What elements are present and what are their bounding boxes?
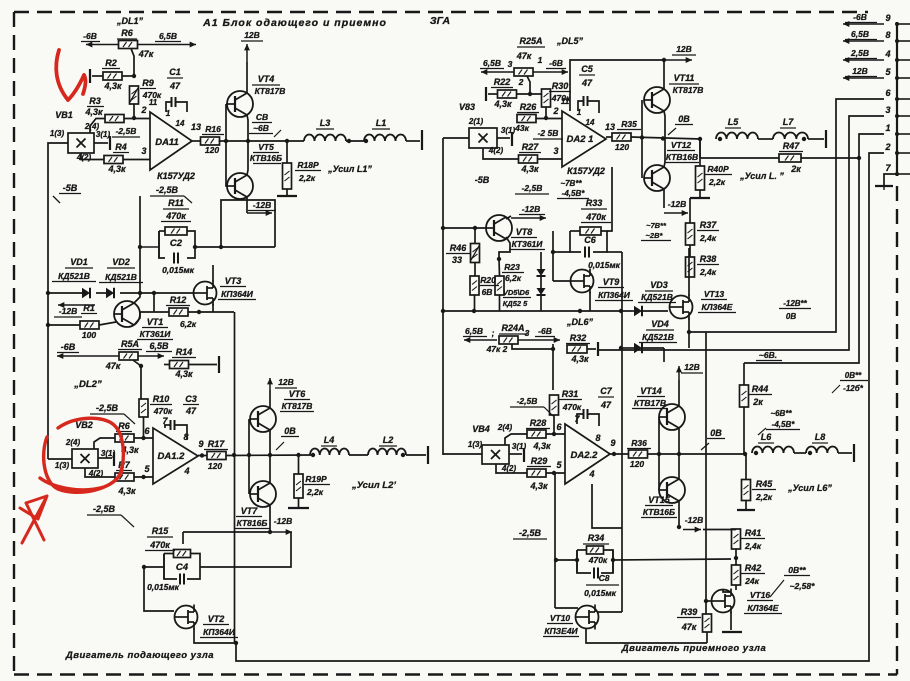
wire R3 to op-amp pin2 xyxy=(124,118,150,120)
resistor R9 (trimmer) xyxy=(130,86,139,104)
op-amp DA1.2 xyxy=(153,428,198,484)
red circle annotation around VB2 xyxy=(40,418,123,492)
wire R26 to op-amp pin2 xyxy=(536,118,562,120)
svg-text:4,3к: 4,3к xyxy=(174,369,193,379)
svg-text:R36: R36 xyxy=(631,438,647,448)
wire C4 left node xyxy=(144,566,164,568)
svg-text:4,3к: 4,3к xyxy=(493,99,512,109)
wire pin 2 drop xyxy=(869,153,884,368)
svg-text:0В: 0В xyxy=(678,114,690,124)
RC bracket C4/R15 xyxy=(164,554,177,580)
wire R5A right 6,5В xyxy=(138,355,164,357)
resistor R44 xyxy=(740,385,749,407)
resistor R16 xyxy=(201,137,220,145)
resistor R17 xyxy=(207,452,226,460)
wire bottom bus xyxy=(236,368,869,661)
svg-text:L8: L8 xyxy=(815,432,826,442)
connector pin 7 xyxy=(897,173,910,175)
svg-text:КТ817В: КТ817В xyxy=(282,401,313,411)
svg-text:4,3к: 4,3к xyxy=(532,441,551,451)
svg-text:КТВ16В: КТВ16В xyxy=(666,152,698,162)
svg-text:4: 4 xyxy=(588,469,594,479)
svg-text:2к: 2к xyxy=(752,397,763,407)
svg-text:100: 100 xyxy=(82,330,96,340)
svg-text:КПЗЕ4И: КПЗЕ4И xyxy=(544,626,578,636)
resistor R23 xyxy=(495,276,504,295)
wire VT7 base xyxy=(248,455,250,494)
wire R44 top xyxy=(743,363,745,385)
svg-text:R15: R15 xyxy=(152,526,170,536)
svg-text:С2: С2 xyxy=(170,238,183,249)
wire VT7 emitter xyxy=(269,455,271,483)
wire VT7 collector -12В xyxy=(269,505,271,532)
svg-text:R32: R32 xyxy=(570,333,587,343)
svg-text:6,5В: 6,5В xyxy=(851,29,869,39)
svg-text:VT3: VT3 xyxy=(225,276,242,286)
svg-text:-12В: -12В xyxy=(274,516,292,526)
wire VT5 collector to -12В xyxy=(246,197,248,213)
svg-text:R4: R4 xyxy=(115,142,127,152)
wire R2 left terminal xyxy=(92,75,103,77)
svg-text:VT12: VT12 xyxy=(671,140,692,150)
svg-text:0,015мк: 0,015мк xyxy=(584,588,617,598)
svg-text:4(2): 4(2) xyxy=(501,464,517,473)
svg-text:33: 33 xyxy=(452,255,462,265)
svg-text:VT2: VT2 xyxy=(208,614,225,624)
svg-text:~2,58*: ~2,58* xyxy=(790,581,816,591)
svg-text:2,4к: 2,4к xyxy=(744,541,762,551)
connector pin 9 xyxy=(897,23,910,25)
svg-text:СВ: СВ xyxy=(256,112,268,122)
svg-text:470к: 470к xyxy=(588,555,608,565)
connector bus bar xyxy=(896,22,898,176)
wire VT15 emitter xyxy=(678,454,680,479)
svg-text:VT15: VT15 xyxy=(648,495,671,505)
wire 6,5В R24А row xyxy=(464,339,497,341)
wire R4 to op-amp pin3 xyxy=(123,159,150,161)
svg-text:-5В: -5В xyxy=(475,175,490,185)
wire R44 bottom to node xyxy=(743,407,745,454)
wire R24A right -6В xyxy=(518,339,560,341)
svg-text:С5: С5 xyxy=(581,64,593,74)
wire op-amp out to R35 xyxy=(606,136,612,138)
wire diode row xyxy=(48,292,82,294)
svg-text:-12В: -12В xyxy=(685,515,703,525)
svg-text:12В: 12В xyxy=(278,377,294,387)
op-amp DA1.1 xyxy=(150,112,192,170)
svg-text:R34: R34 xyxy=(588,533,605,543)
svg-text:-2,5В: -2,5В xyxy=(519,528,542,538)
svg-text:1(3): 1(3) xyxy=(55,461,70,470)
resistor R46 (trimmer) xyxy=(471,244,480,263)
wire VT4 base column xyxy=(225,104,227,141)
svg-text:12В: 12В xyxy=(676,44,692,54)
wire VB3 pin left xyxy=(443,137,469,139)
wire VT5 base xyxy=(226,141,227,186)
resistor R30 xyxy=(542,89,551,107)
svg-text:24к: 24к xyxy=(744,576,759,586)
inductor L7 xyxy=(773,132,808,139)
svg-text:-2,5В: -2,5В xyxy=(96,403,119,413)
svg-text:-2,5В: -2,5В xyxy=(93,504,116,514)
svg-text:VT11: VT11 xyxy=(674,73,695,83)
resistor R42 xyxy=(732,565,741,585)
svg-text:КД521В: КД521В xyxy=(105,272,137,282)
inductor L1 xyxy=(364,135,406,142)
wire VB3 pin3 right xyxy=(497,137,510,139)
svg-text:6В: 6В xyxy=(482,287,493,297)
svg-text:-12В: -12В xyxy=(59,306,77,316)
wire VB1 pin4 to R4 xyxy=(81,153,104,160)
terminal bar L7 xyxy=(825,130,827,148)
wire VD3 row xyxy=(632,310,634,312)
svg-text:R25А: R25А xyxy=(519,36,542,46)
svg-text:6,2к: 6,2к xyxy=(180,319,197,329)
wire C6 right wrap xyxy=(607,251,622,253)
svg-text:VT13: VT13 xyxy=(704,289,725,299)
svg-text:2,2к: 2,2к xyxy=(708,177,726,187)
svg-text:47: 47 xyxy=(185,406,197,416)
svg-text:470к: 470к xyxy=(562,402,582,412)
wire R12 right to rail xyxy=(188,311,234,313)
svg-text:14: 14 xyxy=(176,119,185,128)
wire VT6 collector 12В xyxy=(269,390,271,408)
wire left circuit boundary rail xyxy=(234,312,236,643)
svg-text:0В: 0В xyxy=(284,426,296,436)
svg-text:R14: R14 xyxy=(176,347,193,357)
wire R30 to pin2 node xyxy=(545,107,547,118)
svg-text:С3: С3 xyxy=(185,394,197,404)
connector pin 7 ground xyxy=(884,174,897,186)
svg-text:4,3к: 4,3к xyxy=(117,486,136,496)
wire VT8 base row xyxy=(443,227,486,229)
svg-text:120: 120 xyxy=(208,461,222,471)
diode VD5 xyxy=(537,269,546,276)
inductor L8 xyxy=(806,447,838,454)
svg-text:L1: L1 xyxy=(376,118,387,128)
wire VT3 source down xyxy=(212,304,214,312)
svg-text:~7В**: ~7В** xyxy=(646,221,667,230)
svg-text:~6В: ~6В xyxy=(253,123,269,133)
resistor R12 xyxy=(169,308,188,316)
svg-text:~6В.: ~6В. xyxy=(759,350,777,360)
wire -6В row xyxy=(57,355,119,357)
svg-text:R42: R42 xyxy=(745,563,762,573)
svg-text:КТ361И: КТ361И xyxy=(512,239,544,249)
svg-text:VT9: VT9 xyxy=(603,277,620,287)
wire R5A wiper down xyxy=(133,360,141,399)
svg-text:R11: R11 xyxy=(168,198,184,208)
svg-text:47к: 47к xyxy=(105,361,121,371)
inductor L2 xyxy=(368,449,406,456)
svg-text:L7: L7 xyxy=(783,117,794,127)
svg-text:0В**: 0В** xyxy=(788,565,806,575)
svg-text:120: 120 xyxy=(615,142,629,152)
svg-text:„Усил L1”: „Усил L1” xyxy=(327,164,372,174)
ground R18Р xyxy=(286,189,288,196)
connector pin 6 xyxy=(897,98,910,100)
wire VB4 pin1 left xyxy=(443,453,482,455)
wire R14 to terminal xyxy=(189,364,217,366)
wire VT16 top xyxy=(722,588,724,590)
svg-text:R10: R10 xyxy=(153,394,170,404)
svg-text:R40Р: R40Р xyxy=(707,164,729,174)
wire VT12 collector -12В xyxy=(663,189,665,208)
svg-text:47к: 47к xyxy=(138,49,154,59)
svg-text:13: 13 xyxy=(191,122,201,132)
wire C4 node to VT2 gate xyxy=(144,567,174,611)
svg-text:2: 2 xyxy=(518,77,524,87)
svg-text:„Усил L6”: „Усил L6” xyxy=(787,483,832,493)
svg-text:4: 4 xyxy=(183,466,189,476)
wire VT9 source down xyxy=(589,292,591,311)
svg-text:0,015мк: 0,015мк xyxy=(162,265,195,275)
svg-text:„DL5”: „DL5” xyxy=(556,36,584,46)
resistor R25А xyxy=(514,68,533,76)
wire VT10 drain xyxy=(598,611,622,613)
svg-text:3(1): 3(1) xyxy=(96,130,111,139)
wire VT13 top xyxy=(688,248,690,296)
wire R47 down from node xyxy=(699,139,701,158)
terminal bar L1 xyxy=(421,130,423,150)
wire VT1 emitter up xyxy=(134,293,140,303)
svg-text:11: 11 xyxy=(561,97,570,106)
svg-text:R12: R12 xyxy=(170,295,187,305)
wire R37-R40P xyxy=(689,198,691,223)
wire R9 to pin2 node xyxy=(133,104,135,118)
wire feedback rail right lower xyxy=(621,311,623,612)
wire VB3 pin4 to R27 xyxy=(483,148,519,159)
svg-text:47: 47 xyxy=(600,400,612,410)
wire R46 to R20 xyxy=(474,263,476,277)
wire R1 to VT1 base xyxy=(48,324,80,326)
resistor R7 (DA1.2) xyxy=(115,473,134,481)
wire -12В feedback row xyxy=(183,531,270,533)
wire R24A pin2 down xyxy=(512,344,553,349)
svg-text:Двигатель приемного узла: Двигатель приемного узла xyxy=(621,643,767,654)
wire VB2 pin1 left xyxy=(48,458,72,460)
resistor R18Р xyxy=(283,163,292,189)
svg-text:R35: R35 xyxy=(621,119,637,129)
inductor L5 xyxy=(716,133,758,139)
capacitor C8 xyxy=(593,568,595,579)
svg-text:~6В**: ~6В** xyxy=(770,409,792,418)
wire VT6 base column xyxy=(248,419,250,455)
wire pin 3 drop xyxy=(598,116,884,350)
svg-text:VD2: VD2 xyxy=(112,257,130,267)
wire VT15 base xyxy=(658,454,660,490)
wire L4 to L2 xyxy=(349,454,368,456)
red arrow annotation xyxy=(20,496,47,543)
wire R28 to pin6 xyxy=(546,433,565,435)
svg-text:КТВ16Б: КТВ16Б xyxy=(643,507,675,517)
wire R6 left -6В xyxy=(86,44,119,46)
resistor R1 xyxy=(80,321,99,329)
wire VT11 emitter xyxy=(664,111,665,139)
transistor VT6 КТ817В xyxy=(250,406,276,432)
svg-text:ЗГА: ЗГА xyxy=(430,15,450,27)
svg-text:R29: R29 xyxy=(531,456,548,466)
wire L2 to terminal xyxy=(406,454,426,456)
svg-text:КТ817В: КТ817В xyxy=(255,86,286,96)
svg-text:-2,5В: -2,5В xyxy=(517,396,538,406)
RC bracket C6/R33 xyxy=(570,231,581,252)
inductor L3 xyxy=(304,135,346,142)
wire C6 left node xyxy=(553,251,570,253)
resistor R2 xyxy=(103,72,122,80)
connector pin 1 xyxy=(897,133,910,135)
svg-text:R47: R47 xyxy=(783,141,801,151)
transistor VT11 КТ817В xyxy=(644,87,670,113)
transistor VT15 КТВ16В xyxy=(659,477,685,503)
transistor VT2 КП364И xyxy=(175,606,198,629)
svg-text:3: 3 xyxy=(508,59,513,69)
svg-text:L2: L2 xyxy=(383,435,394,445)
svg-text:КД521В: КД521В xyxy=(642,332,674,342)
svg-text:К157УД2: К157УД2 xyxy=(157,171,195,181)
resistor R40Р xyxy=(696,166,705,190)
svg-text:470к: 470к xyxy=(585,212,606,222)
ground R19Р xyxy=(298,498,300,508)
wire rail x556 to VT10 xyxy=(554,473,556,608)
svg-text:4(2): 4(2) xyxy=(76,153,92,162)
svg-text:14: 14 xyxy=(586,118,595,127)
svg-text:R22: R22 xyxy=(494,77,511,87)
svg-text:2: 2 xyxy=(884,142,890,152)
svg-text:3: 3 xyxy=(885,105,890,115)
svg-text:9: 9 xyxy=(885,13,890,23)
svg-text:-4,5В*: -4,5В* xyxy=(772,420,796,429)
svg-text:4,3к: 4,3к xyxy=(520,164,539,174)
svg-text:4,3к: 4,3к xyxy=(529,481,548,491)
svg-text:-2,5В: -2,5В xyxy=(156,185,179,195)
wire row to rail x849 xyxy=(552,344,554,349)
resistor R29 xyxy=(527,469,546,477)
resistor R47 xyxy=(779,154,801,162)
wire node to R19Р xyxy=(298,455,300,474)
transistor VT8 КТ361И xyxy=(486,215,512,241)
wire R6 wiper to R2 node xyxy=(131,49,134,77)
svg-text:R23: R23 xyxy=(504,262,520,272)
svg-text:-6В: -6В xyxy=(61,342,76,352)
inductor L4 xyxy=(310,449,349,456)
svg-text:L6: L6 xyxy=(761,432,772,442)
svg-text:VD3: VD3 xyxy=(650,280,668,290)
svg-text:С6: С6 xyxy=(584,235,596,245)
wire feedback rail right upper xyxy=(621,252,623,311)
wire VT8 emitter -12В xyxy=(506,216,511,219)
svg-text:2к: 2к xyxy=(790,164,801,174)
svg-text:R38: R38 xyxy=(700,254,717,264)
wire op-amp out to R17 xyxy=(198,455,207,457)
svg-text:1(3): 1(3) xyxy=(50,129,65,138)
svg-text:2(4): 2(4) xyxy=(497,423,513,432)
svg-text:КП364И: КП364И xyxy=(221,289,254,299)
svg-text:43к: 43к xyxy=(514,123,529,133)
wire VB4 pin2 up xyxy=(505,434,527,445)
svg-text:6,5В: 6,5В xyxy=(483,58,501,68)
wire pin8 down xyxy=(186,434,188,440)
wire VT14 collector 12В xyxy=(678,380,680,406)
wire C8 left node xyxy=(556,559,577,561)
wire R6 right 6,5В xyxy=(138,44,197,46)
terminal bar L2 xyxy=(427,446,429,464)
resistor R6 xyxy=(119,41,138,49)
svg-text:0В: 0В xyxy=(710,428,722,438)
ground R40Р xyxy=(699,190,701,198)
svg-text:R44: R44 xyxy=(752,384,769,394)
svg-text:4(2): 4(2) xyxy=(488,146,504,155)
svg-text:2,2к: 2,2к xyxy=(755,492,773,502)
wire VT3 drain up xyxy=(212,265,214,282)
wire bottom row mid xyxy=(443,310,632,312)
resistor R10 xyxy=(139,399,148,417)
svg-text:С7: С7 xyxy=(600,386,612,396)
wire VT2 drain down xyxy=(194,628,236,643)
wire R45 top xyxy=(745,454,747,480)
transistor VT1 КТ361И xyxy=(114,301,140,327)
svg-text:-12В: -12В xyxy=(522,204,540,214)
svg-text:;: ; xyxy=(492,328,495,338)
connector pin 8 xyxy=(897,40,910,42)
connector pin 2 xyxy=(897,152,910,154)
resistor R32 xyxy=(567,345,587,353)
wire feedback stub DA2.1 xyxy=(607,167,612,231)
svg-text:1(3): 1(3) xyxy=(468,440,483,449)
svg-text:R31: R31 xyxy=(562,389,579,399)
wire pin7 cap xyxy=(164,425,166,428)
svg-text:R5А: R5А xyxy=(121,339,139,349)
svg-text:12В: 12В xyxy=(244,30,260,40)
wire pin 1 drop xyxy=(744,134,884,363)
svg-text:VT16: VT16 xyxy=(750,590,771,600)
svg-text:-12В**: -12В** xyxy=(783,299,807,308)
svg-text:VT10: VT10 xyxy=(550,613,571,623)
transistor VT4 КТ817В xyxy=(227,91,253,117)
resistor R37 xyxy=(686,223,695,245)
wire VT14 base column xyxy=(658,417,660,454)
svg-text:2,5В: 2,5В xyxy=(850,48,869,58)
svg-text:-6В: -6В xyxy=(83,31,97,41)
wire node to L3 xyxy=(287,140,304,142)
connector pin 5 xyxy=(897,77,910,79)
svg-text:С1: С1 xyxy=(169,67,181,77)
svg-text:-2,5В: -2,5В xyxy=(522,183,543,193)
wire R29 to pin5 xyxy=(546,472,565,474)
svg-text:11: 11 xyxy=(149,98,158,107)
svg-text:VD5\D6: VD5\D6 xyxy=(503,288,530,297)
transistor VT3 КП364И xyxy=(194,282,217,305)
svg-text:9: 9 xyxy=(198,439,203,449)
wire VT9 gate xyxy=(553,280,571,282)
svg-text:6,5В: 6,5В xyxy=(149,341,169,351)
svg-text:12В: 12В xyxy=(852,66,868,76)
svg-text:2: 2 xyxy=(552,106,558,116)
wire R10 to pin6 node xyxy=(143,417,145,438)
wire rail x689-x690 lower xyxy=(688,332,690,348)
svg-text:R28: R28 xyxy=(530,418,547,428)
svg-text:2,2к: 2,2к xyxy=(298,173,316,183)
transistor VT12 КТВ16В xyxy=(644,165,670,191)
resistor R22 xyxy=(498,90,517,98)
wire pin 6 drop xyxy=(689,99,884,332)
svg-text:VD4: VD4 xyxy=(651,319,669,329)
svg-text:1: 1 xyxy=(538,55,543,65)
svg-text:47: 47 xyxy=(581,78,593,88)
svg-text:3(1): 3(1) xyxy=(501,126,516,135)
svg-text:470к: 470к xyxy=(153,406,173,416)
svg-text:R3: R3 xyxy=(89,96,101,106)
